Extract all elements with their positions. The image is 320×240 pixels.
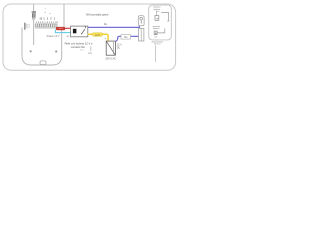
- svg-text:contatto NA: contatto NA: [71, 45, 85, 49]
- svg-text:giallo: giallo: [95, 34, 101, 36]
- svg-text:NA (normally open): NA (normally open): [86, 12, 108, 16]
- svg-text:DC: DC: [117, 47, 121, 49]
- svg-text:elettrica: elettrica: [153, 27, 161, 30]
- svg-text:chiave 12 V: chiave 12 V: [46, 35, 59, 38]
- svg-text:elettrica: elettrica: [153, 8, 161, 11]
- svg-text:rosso: rosso: [58, 28, 62, 30]
- svg-text:12 V: 12 V: [117, 44, 122, 46]
- svg-text:12V: 12V: [88, 53, 92, 55]
- svg-text:12v: 12v: [155, 37, 158, 39]
- svg-text:12 V ca: 12 V ca: [154, 43, 161, 45]
- svg-text:230 V AC: 230 V AC: [105, 56, 116, 60]
